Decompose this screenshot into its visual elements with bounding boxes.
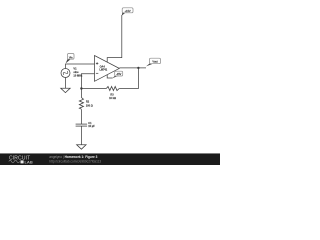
voltage source V1 <box>61 69 70 78</box>
label V1 sine 10 MHz <box>73 66 83 77</box>
wire inverting input down to R2 <box>81 74 94 98</box>
net flag Vin <box>66 54 74 64</box>
junction output node <box>137 67 139 69</box>
svg-text:http://circuitlab.com/c/e969c2: http://circuitlab.com/c/e969c27fda113 <box>49 159 101 163</box>
svg-text:Vout: Vout <box>152 60 157 64</box>
wire output to Vout <box>119 67 146 69</box>
wire source to ground <box>65 78 67 89</box>
label C1 10 uF <box>88 122 95 128</box>
wire R3 to inverting node <box>81 88 106 90</box>
svg-text:-15V: -15V <box>116 73 122 76</box>
wire R2 to C1 <box>80 109 82 124</box>
label R2 100 Ohm <box>86 101 93 108</box>
svg-text:+15V: +15V <box>125 9 131 13</box>
net flag +15V <box>122 8 133 16</box>
svg-text:Vin: Vin <box>69 55 73 59</box>
footer CircuitLab logo <box>9 155 33 164</box>
footer caption <box>49 155 101 164</box>
net flag Vout <box>146 58 161 66</box>
svg-text:V1: V1 <box>73 66 77 70</box>
wire non-inverting input from Vin node to op-amp <box>66 64 95 69</box>
ground (C1) <box>77 145 87 150</box>
capacitor C1 <box>76 124 88 126</box>
svg-text:10 µF: 10 µF <box>88 125 95 128</box>
junction inverting node <box>80 87 82 89</box>
svg-text:sine: sine <box>73 70 79 74</box>
wire negative supply pin <box>107 75 112 78</box>
ground (source) <box>61 88 70 92</box>
op-amp OA4 LM741 <box>95 56 120 82</box>
svg-text:LM741: LM741 <box>99 69 107 72</box>
footer bar <box>0 153 220 165</box>
wire C1 to ground <box>80 126 82 145</box>
label R3 10 kOhm <box>109 94 116 100</box>
resistor R2 <box>79 98 83 110</box>
net flag -15V <box>112 71 122 78</box>
wire feedback from output node down to R3 <box>119 68 138 89</box>
resistor R3 <box>106 86 119 90</box>
svg-text:10 kΩ: 10 kΩ <box>109 97 116 100</box>
svg-text:LAB: LAB <box>25 160 33 165</box>
svg-text:angelyno | Homework 1: Figure: angelyno | Homework 1: Figure 3 <box>49 155 97 159</box>
wire positive supply pin to +15V flag <box>107 15 122 62</box>
svg-text:100 Ω: 100 Ω <box>86 105 93 108</box>
